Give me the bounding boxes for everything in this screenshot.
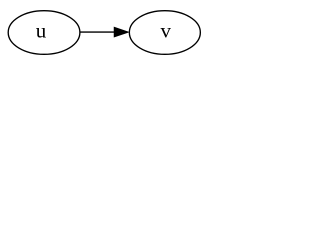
svg-text:u: u <box>36 19 47 43</box>
svg-text:v: v <box>161 19 172 43</box>
